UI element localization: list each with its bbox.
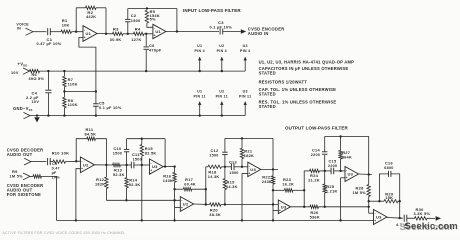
wire feedback top stage2 — [128, 8, 177, 10]
wire U3d plus stub — [341, 177, 345, 179]
svg-text:10V: 10V — [32, 100, 40, 104]
svg-text:82.5K: 82.5K — [145, 151, 157, 155]
op-amp U2a — [80, 157, 94, 173]
svg-text:U1: U1 — [86, 31, 92, 36]
svg-text:1500: 1500 — [131, 19, 141, 23]
resistor R9 — [33, 175, 42, 178]
svg-text:R26: R26 — [310, 210, 319, 215]
svg-text:STATED: STATED — [259, 71, 276, 76]
wire lower minus line — [106, 199, 180, 201]
node C4 bottom rail — [47, 114, 49, 116]
resistor R20 — [210, 203, 222, 206]
arrow U1 pin11 — [199, 102, 201, 116]
svg-text:STATED: STATED — [259, 92, 276, 97]
svg-text:110K: 110K — [68, 82, 78, 86]
svg-text:0.47 µF 10%: 0.47 µF 10% — [37, 42, 62, 46]
svg-text:84.5K: 84.5K — [85, 133, 97, 137]
svg-text:110K: 110K — [68, 103, 78, 107]
wire U3b plus stub — [242, 172, 248, 174]
wire R29 to output column — [398, 200, 400, 202]
capacitor C4 column — [47, 71, 49, 90]
capacitor C5 column — [95, 103, 97, 105]
svg-text:U1: U1 — [197, 44, 202, 48]
svg-text:R15: R15 — [145, 146, 154, 151]
wire U3d plus column — [340, 178, 342, 221]
resistor R21 — [240, 148, 243, 158]
svg-text:PIN 4: PIN 4 — [195, 49, 205, 53]
svg-text:PIN 4: PIN 4 — [217, 49, 227, 53]
svg-text:38.3K: 38.3K — [209, 213, 221, 217]
wire feedback left vertical — [75, 8, 77, 32]
svg-text:µF: µF — [52, 171, 57, 175]
svg-text:R13: R13 — [114, 167, 123, 172]
wire R10 to U2a — [66, 160, 81, 162]
wire U3b plus column — [241, 173, 243, 220]
wire R27 to minus line — [340, 159, 342, 171]
node R27 top — [339, 135, 341, 137]
svg-text:1M 5%: 1M 5% — [353, 191, 367, 195]
node U3d plus rail — [339, 219, 341, 221]
node R23 column output — [303, 206, 305, 208]
svg-text:C2: C2 — [131, 13, 137, 18]
wire R30 to arrow — [427, 217, 435, 219]
node at U1a inverting input — [75, 31, 77, 33]
wire R11 to output — [96, 139, 107, 165]
svg-text:R8: R8 — [68, 98, 74, 103]
svg-text:U2: U2 — [219, 44, 224, 48]
svg-text:3.3K 5%: 3.3K 5% — [414, 212, 431, 216]
resistor R11 — [87, 137, 96, 140]
resistor R1 — [61, 30, 72, 33]
wire U2b output — [194, 203, 210, 206]
svg-text:R18: R18 — [208, 170, 217, 175]
svg-text:R25: R25 — [326, 184, 335, 189]
node R29 junction — [368, 200, 370, 202]
wire R17 to U2b output — [192, 189, 206, 204]
wire sidetone to R9 — [30, 175, 33, 177]
resistor R24 — [310, 169, 320, 172]
svg-text:U2: U2 — [83, 162, 89, 167]
svg-text:R3: R3 — [113, 26, 119, 31]
node U2a plus rail — [75, 219, 77, 221]
node U3b plus rail — [241, 219, 243, 221]
node R17 riser junction — [205, 188, 207, 190]
svg-text:PIN 11: PIN 11 — [239, 94, 251, 98]
svg-text:+: + — [181, 206, 183, 210]
resistor R10 — [53, 160, 66, 163]
svg-text:FOR SIDETONE: FOR SIDETONE — [7, 192, 41, 197]
ground symbol — [36, 114, 38, 116]
svg-text:U3: U3 — [243, 90, 248, 94]
svg-text:AUDIO OUT: AUDIO OUT — [7, 152, 33, 157]
wire U3e minus stub — [369, 212, 374, 214]
node U3b output — [272, 168, 274, 170]
wire R20 to U3c — [221, 204, 278, 206]
capacitor C17 4.7uF — [403, 215, 405, 222]
wire feedback right vertical stage2 — [176, 9, 178, 32]
svg-text:182K: 182K — [244, 154, 254, 158]
node U2b output — [205, 203, 207, 205]
op-amp U1a — [83, 26, 97, 42]
node R4-C6 — [145, 33, 147, 35]
wire R1 to U1a — [72, 31, 84, 33]
svg-text:442K: 442K — [86, 15, 96, 19]
wire U2a plus stub — [76, 169, 81, 221]
svg-text:15K: 15K — [385, 196, 393, 200]
wire R8 bottom — [63, 108, 65, 116]
resistor R15 — [140, 145, 143, 157]
node R26 end junction — [368, 206, 370, 208]
resistor R8 — [63, 97, 66, 107]
svg-text:464K: 464K — [342, 156, 352, 160]
wire U1a output — [97, 33, 113, 35]
wire +VDD rail — [40, 70, 246, 72]
svg-text:1M 5%: 1M 5% — [10, 175, 24, 179]
op-amp U3b — [248, 162, 261, 176]
svg-text:PIN 11: PIN 11 — [194, 94, 206, 98]
capacitor C15 — [330, 168, 332, 175]
wire U3e output — [387, 217, 403, 220]
wire R3 to R4 — [123, 33, 133, 35]
svg-text:RESISTORS 1/20WATT: RESISTORS 1/20WATT — [259, 80, 308, 85]
resistor R22 column — [272, 169, 274, 175]
node R21 bottom junction — [241, 166, 243, 168]
resistor R22 — [271, 176, 274, 184]
resistor R16 column — [174, 167, 176, 173]
node U3c minus junction — [272, 203, 274, 205]
resistor R23 — [284, 189, 293, 192]
node bias at C5 column — [95, 90, 97, 92]
op-amp U2b — [180, 197, 193, 212]
svg-text:2200: 2200 — [311, 153, 320, 157]
resistor R17 wire — [175, 188, 184, 190]
svg-text:0.1 µF 10%: 0.1 µF 10% — [210, 25, 233, 29]
wire F1 loop stage2 — [127, 138, 166, 140]
svg-text:143K: 143K — [163, 179, 173, 183]
svg-text:60.4K: 60.4K — [184, 182, 196, 186]
resistor R3 — [113, 32, 124, 35]
wire U2a output — [94, 164, 112, 166]
wire rail to R7 — [63, 71, 65, 76]
node R25 bottom — [324, 206, 326, 208]
svg-text:39Ω 5%: 39Ω 5% — [29, 77, 45, 81]
svg-text:R4: R4 — [135, 26, 141, 31]
svg-text:+: + — [154, 33, 156, 37]
svg-text:STATED: STATED — [259, 104, 276, 109]
svg-text:1500: 1500 — [133, 157, 142, 161]
wire U3c plus stub — [273, 209, 278, 211]
capacitor C1 — [47, 28, 49, 35]
resistor R2 — [86, 6, 97, 9]
wire U3d output — [359, 173, 373, 176]
wire feedback right vertical — [105, 8, 107, 34]
wire M3 to R24 — [304, 170, 309, 172]
resistor R19 column — [224, 167, 226, 179]
node C4 top — [47, 70, 49, 72]
capacitor C2 — [125, 18, 130, 20]
svg-text:C4: C4 — [32, 90, 38, 95]
op-amp U3c — [278, 200, 290, 214]
node pin11 U2 — [221, 114, 223, 116]
svg-text:U3: U3 — [281, 204, 287, 209]
node R14 bottom — [125, 199, 127, 201]
wire feedback top left — [76, 7, 85, 9]
resistor R21 upper wire — [241, 138, 243, 148]
wire C14 column — [324, 155, 326, 171]
svg-text:R24: R24 — [310, 173, 319, 178]
wire U2b plus stub — [175, 207, 181, 209]
svg-text:R11: R11 — [86, 127, 94, 132]
wire U3b output — [261, 168, 278, 170]
svg-text:U1, U2, U3, HARRIS HA-4741 QUA: U1, U2, U3, HARRIS HA-4741 QUAD-OP AMP — [259, 60, 355, 65]
op-amp U3e — [374, 210, 388, 225]
resistor R27 upper wire — [340, 136, 342, 150]
node R21 top — [241, 137, 243, 139]
svg-text:R22: R22 — [262, 174, 271, 179]
svg-text:R23: R23 — [283, 177, 292, 182]
resistor R7 — [63, 76, 66, 86]
svg-text:R14: R14 — [129, 177, 138, 182]
resistor R28 column — [368, 175, 370, 185]
wire C2 column — [127, 22, 129, 34]
svg-text:52.3K: 52.3K — [113, 173, 125, 177]
capacitor C13 — [230, 164, 232, 171]
wire C12 column — [224, 155, 226, 167]
svg-text:16.2K: 16.2K — [282, 182, 294, 186]
svg-text:U2: U2 — [183, 202, 189, 207]
arrow U2 pin4 — [221, 57, 223, 71]
wire R13 to C11 — [120, 164, 131, 166]
svg-text:U3: U3 — [250, 167, 256, 172]
node U2a output — [105, 164, 107, 166]
svg-text:R7: R7 — [68, 77, 74, 82]
svg-text:C12: C12 — [211, 149, 219, 153]
svg-text:470pF: 470pF — [149, 49, 162, 53]
svg-text:U3: U3 — [376, 215, 382, 220]
node U1b output — [176, 30, 178, 32]
resistor R12 — [105, 177, 108, 188]
svg-text:52.3K: 52.3K — [129, 183, 141, 187]
node C6 bottom rail — [145, 70, 147, 72]
resistor R19 — [223, 179, 226, 190]
svg-text:C5: C5 — [99, 101, 105, 106]
node minus line junction U2b — [173, 199, 175, 201]
resistor R5 — [145, 10, 148, 23]
svg-text:PIN 4: PIN 4 — [240, 49, 250, 53]
svg-text:R9: R9 — [12, 169, 18, 174]
svg-text:+: + — [279, 209, 281, 213]
svg-text:R20: R20 — [210, 207, 219, 212]
svg-text:1500: 1500 — [229, 171, 238, 175]
svg-text:U3: U3 — [243, 44, 248, 48]
svg-text:C6: C6 — [149, 43, 155, 48]
wire F2 loop — [325, 135, 369, 137]
arrow U3 pin11 right — [244, 102, 246, 116]
node stage3 column rail — [272, 219, 274, 221]
wire U3a output — [163, 166, 168, 168]
wire R21 to minus line — [241, 159, 243, 167]
node R17 junction — [173, 188, 175, 190]
node R8 bottom rail — [63, 114, 65, 116]
node R19 bottom — [224, 203, 226, 205]
node column rail U2b — [173, 219, 175, 221]
svg-text:1500: 1500 — [113, 151, 122, 155]
resistor R23 wire — [273, 189, 284, 191]
node bias midpoint — [63, 90, 65, 92]
svg-text:C10: C10 — [114, 147, 122, 151]
capacitor C9 — [47, 158, 49, 165]
svg-text:R19: R19 — [227, 179, 236, 184]
capacitor C16 — [388, 171, 390, 177]
svg-text:PIN 11: PIN 11 — [216, 94, 228, 98]
capacitor C3 — [219, 29, 221, 35]
node R16 top — [173, 165, 175, 167]
op-amp U1b — [153, 24, 166, 38]
wire bias to C5 column — [64, 91, 96, 93]
node C16 right bottom — [399, 200, 401, 202]
svg-text:+: + — [374, 219, 376, 223]
resistor R15 column — [141, 139, 143, 145]
svg-text:10K: 10K — [62, 23, 70, 27]
svg-text:U2: U2 — [219, 90, 224, 94]
svg-text:U1: U1 — [197, 90, 202, 94]
arrow audio output — [436, 216, 441, 221]
svg-text:+: + — [150, 169, 152, 173]
wire bias rail bottom — [56, 219, 373, 221]
svg-text:14.3K: 14.3K — [208, 175, 220, 179]
arrow U1 pin4 — [199, 57, 201, 71]
wire F1 loop stage3 — [225, 137, 273, 139]
arrow U3 pin4 — [244, 57, 246, 71]
wire decoder to C9 — [31, 161, 46, 163]
node R7 top — [63, 70, 65, 72]
svg-text:5%: 5% — [150, 18, 156, 22]
resistor R26 — [310, 205, 319, 208]
resistor R17 — [183, 188, 191, 191]
capacitor C5 — [93, 103, 99, 105]
input arrow decoder — [24, 158, 31, 165]
resistor R14 column — [126, 165, 128, 178]
capacitor C6 — [144, 46, 149, 48]
svg-text:1500: 1500 — [209, 153, 218, 157]
svg-text:R21: R21 — [244, 148, 253, 153]
wire R24 to C15 — [319, 170, 331, 172]
svg-text:2.2 µF: 2.2 µF — [26, 96, 39, 100]
op-amp U3a — [150, 159, 164, 174]
resistor R4 — [133, 32, 144, 35]
wire R5 to U1b minus — [147, 23, 153, 27]
svg-text:2200: 2200 — [328, 164, 337, 168]
svg-text:INPUT LOW-PASS FILTER: INPUT LOW-PASS FILTER — [183, 8, 241, 13]
svg-text:R10 10K: R10 10K — [52, 151, 70, 156]
capacitor C14 — [322, 151, 327, 153]
resistor R18 — [208, 165, 222, 168]
svg-text:C3: C3 — [218, 20, 224, 25]
capacitor C6 column — [145, 34, 147, 46]
wire feedback top right — [96, 7, 106, 9]
svg-text:R27: R27 — [342, 150, 351, 155]
node R15 minus junction — [141, 164, 143, 166]
arrow U3 pin11 — [221, 102, 223, 116]
svg-text:R12: R12 — [96, 177, 105, 182]
node F1 on U3a output — [164, 165, 166, 167]
svg-text:127K: 127K — [131, 38, 141, 42]
node pin4 U1 — [199, 70, 201, 72]
svg-text:+: + — [81, 167, 83, 171]
wire voice-in to C1 — [33, 31, 46, 33]
svg-text:Seekic.com: Seekic.com — [405, 221, 458, 232]
node U1a output — [105, 33, 107, 35]
svg-text:10V: 10V — [11, 71, 19, 75]
svg-text:+: + — [346, 176, 348, 180]
wire F2 right vertical — [368, 136, 370, 174]
svg-text:243K: 243K — [262, 180, 272, 184]
svg-text:1.21K: 1.21K — [326, 189, 338, 193]
resistor R25 column — [324, 171, 326, 184]
node pin11 U1 — [199, 114, 201, 116]
input arrow sidetone — [23, 173, 30, 180]
node R15 top — [141, 138, 143, 140]
svg-text:U3: U3 — [348, 172, 354, 177]
resistor R29 — [384, 200, 398, 203]
svg-text:C13: C13 — [229, 161, 237, 165]
wire U3c output — [291, 206, 310, 208]
svg-text:ACTIVE FILTERS FOR CVSD VOICE: ACTIVE FILTERS FOR CVSD VOICE CODEC 300-… — [3, 231, 126, 235]
wire F1 right vertical stage3 — [272, 138, 274, 169]
wire R4 to U1b — [144, 33, 153, 35]
node R27 bottom junction — [339, 170, 341, 172]
svg-text:R1: R1 — [62, 18, 68, 23]
node C5 bottom rail — [95, 114, 97, 116]
node C16 left bottom — [378, 200, 380, 202]
capacitor C16 loop — [379, 174, 388, 201]
op-amp U3d — [345, 167, 359, 182]
wire R18 to C13 — [222, 166, 232, 168]
wire R9 to bias rail corner — [42, 176, 57, 220]
svg-text:IN: IN — [17, 27, 21, 31]
svg-text:+VDD: +VDD — [18, 62, 28, 68]
wire R11 feedback loop — [76, 139, 87, 162]
node U3d output — [368, 173, 370, 175]
input arrow GND — [24, 112, 31, 118]
node X3 — [224, 166, 226, 168]
resistor R12 column — [105, 165, 107, 177]
wire R7-R8 junction — [63, 87, 65, 98]
wire R23 to output column — [293, 189, 304, 191]
resistor R16 wire — [168, 166, 175, 168]
resistor R6 — [30, 69, 40, 72]
svg-text:21.2K: 21.2K — [308, 179, 320, 183]
node X4 — [324, 170, 326, 172]
svg-text:GND–VSS: GND–VSS — [13, 106, 33, 112]
wire R26 to R28 column — [319, 206, 369, 208]
wire F1 right vertical stage2 — [164, 139, 166, 167]
wire M2 riser — [205, 167, 207, 205]
node A stage2 — [127, 33, 129, 35]
svg-text:R28: R28 — [356, 185, 365, 190]
resistor R28 — [367, 185, 370, 197]
node U2a inverting input — [75, 160, 77, 162]
resistor R16 — [173, 172, 176, 182]
wire R29 segment — [369, 200, 384, 202]
wire C10 column — [126, 152, 128, 165]
wire GND rail — [30, 115, 245, 117]
svg-text:0.47: 0.47 — [52, 166, 60, 170]
wire U1a plus-input path — [79, 37, 96, 104]
node R23 junction — [272, 189, 274, 191]
svg-text:14.3K: 14.3K — [226, 185, 238, 189]
node output column — [399, 217, 401, 219]
